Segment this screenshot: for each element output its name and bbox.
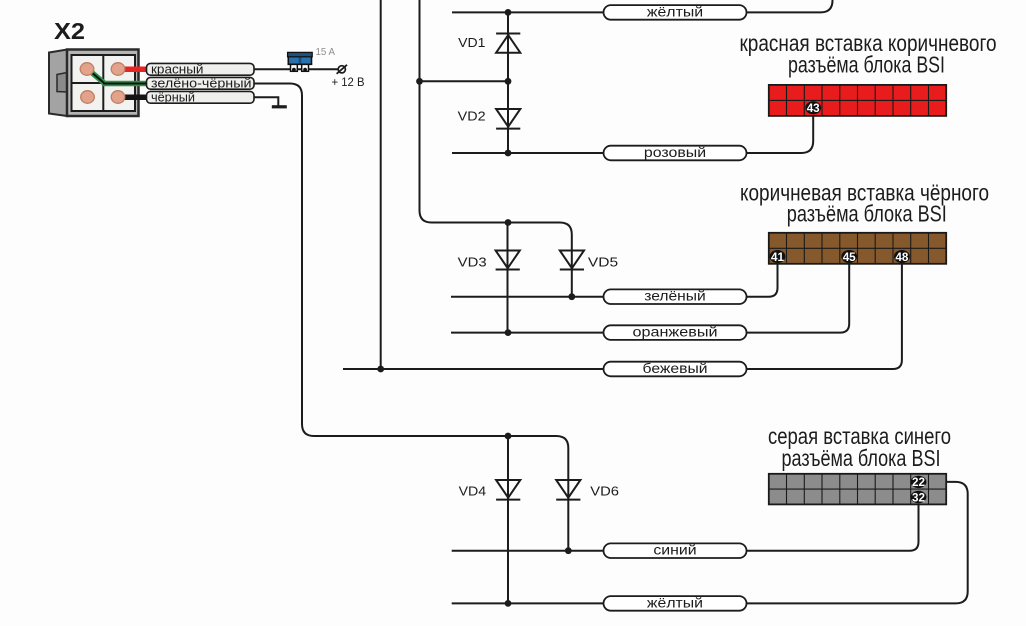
svg-text:41: 41 <box>771 250 784 264</box>
svg-text:+ 12 В: + 12 В <box>332 77 365 89</box>
svg-text:45: 45 <box>843 250 856 264</box>
svg-text:зелёный: зелёный <box>644 288 706 304</box>
svg-text:жёлтый: жёлтый <box>647 594 703 610</box>
svg-text:разъёма блока BSI: разъёма блока BSI <box>787 201 947 227</box>
svg-text:43: 43 <box>807 101 820 115</box>
svg-text:синий: синий <box>653 542 696 558</box>
svg-text:красный: красный <box>151 62 204 77</box>
svg-text:разъёма блока BSI: разъёма блока BSI <box>782 445 941 471</box>
svg-text:жёлтый: жёлтый <box>647 3 703 19</box>
svg-text:бежевый: бежевый <box>643 360 708 376</box>
svg-text:15 A: 15 A <box>316 46 336 58</box>
svg-text:розовый: розовый <box>644 144 706 160</box>
svg-text:X2: X2 <box>54 18 85 44</box>
svg-text:VD5: VD5 <box>588 255 618 270</box>
svg-text:VD4: VD4 <box>459 484 487 499</box>
svg-text:VD1: VD1 <box>458 35 485 50</box>
svg-text:48: 48 <box>895 250 908 264</box>
svg-text:22: 22 <box>912 475 925 489</box>
svg-text:VD6: VD6 <box>590 484 619 499</box>
svg-text:VD3: VD3 <box>458 255 487 270</box>
svg-text:32: 32 <box>912 490 925 504</box>
svg-text:оранжевый: оранжевый <box>633 324 718 340</box>
svg-text:VD2: VD2 <box>458 109 486 124</box>
svg-text:зелёно-чёрный: зелёно-чёрный <box>151 76 252 91</box>
svg-text:разъёма блока BSI: разъёма блока BSI <box>788 51 945 77</box>
svg-text:чёрный: чёрный <box>151 90 195 105</box>
